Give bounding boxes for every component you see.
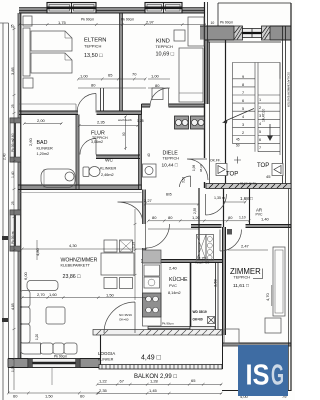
svg-text:1,20m2: 1,20m2 — [37, 152, 50, 156]
svg-text:1,75: 1,75 — [58, 20, 67, 25]
kind wardrobe — [188, 17, 204, 46]
svg-text:KLEBEPARKETT: KLEBEPARKETT — [61, 264, 91, 268]
zimmer bottom fill — [222, 343, 291, 345]
svg-text:45: 45 — [266, 174, 271, 179]
bad/wc separation — [75, 115, 77, 190]
wohnzimmer south window — [28, 359, 80, 386]
svg-text:80: 80 — [168, 215, 173, 220]
stair upper landing — [233, 63, 281, 79]
north wall band — [19, 7, 204, 9]
corridor wall fill — [205, 26, 210, 104]
svg-text:TOP: TOP — [226, 172, 238, 178]
west wall — [20, 13, 22, 358]
zimmer west wall — [222, 227, 224, 369]
kueche stove dark — [143, 293, 162, 317]
svg-text:6: 6 — [259, 138, 261, 142]
page border line left outer — [2, 23, 4, 400]
diele top wall — [142, 103, 205, 105]
svg-text:Pk 90cm: Pk 90cm — [220, 21, 233, 25]
svg-text:4,70: 4,70 — [265, 292, 270, 301]
svg-text:KLINKER: KLINKER — [37, 147, 54, 151]
svg-text:WC: WC — [105, 158, 114, 164]
svg-text:4,80: 4,80 — [35, 247, 40, 256]
svg-text:65: 65 — [191, 378, 196, 383]
top-right step — [218, 2, 291, 4]
svg-text:BAD: BAD — [37, 140, 48, 146]
kind pillow — [174, 30, 185, 41]
kueche fridge — [144, 265, 160, 276]
wohnzimmer/diele wall — [142, 190, 144, 263]
edge mark 2 — [2, 318, 8, 322]
svg-text:1,60: 1,60 — [49, 292, 58, 297]
door arc diele entrance — [187, 159, 208, 180]
svg-text:4,85: 4,85 — [11, 303, 15, 310]
kind north window — [145, 3, 182, 14]
eltern bed headboard — [23, 28, 30, 76]
diele right wall — [204, 104, 206, 188]
rotated dims — [3, 24, 271, 372]
sofa corner — [21, 343, 41, 354]
ne band fill — [200, 26, 234, 39]
stair step numbers left — [242, 75, 244, 135]
eltern mattress 1 — [31, 31, 72, 51]
balkon dim line 1 — [97, 383, 222, 385]
door jamb mark — [227, 229, 232, 235]
flur dims lines — [78, 78, 146, 80]
svg-text:3,06m2: 3,06m2 — [91, 140, 103, 144]
flur vertical dim — [125, 116, 127, 150]
svg-text:35: 35 — [11, 24, 15, 28]
south wall fill — [8, 359, 28, 367]
svg-text:1,50: 1,50 — [106, 293, 115, 298]
svg-text:6: 6 — [242, 99, 244, 103]
svg-text:WD 35/19: WD 35/19 — [193, 310, 207, 314]
sofa chaise top — [27, 281, 58, 291]
svg-text:1,35 m: 1,35 m — [214, 196, 225, 200]
bad bathtub — [41, 169, 75, 188]
svg-text:TEPPICH: TEPPICH — [163, 157, 180, 161]
door arc loggia — [104, 302, 135, 333]
right flight steps — [258, 95, 280, 152]
svg-text:1,68 □: 1,68 □ — [240, 196, 253, 201]
svg-text:2,60: 2,60 — [11, 133, 15, 140]
svg-text:Vorgel.=DS: Vorgel.=DS — [195, 261, 209, 265]
svg-text:TEPPICH: TEPPICH — [156, 44, 173, 49]
stair walk line — [224, 109, 254, 122]
wohnzimmer diele wall fill — [143, 190, 145, 225]
flur/diele wall — [138, 115, 140, 191]
diele stove unit — [175, 116, 205, 129]
down arrow right flight — [269, 124, 271, 136]
dining chairs top — [104, 240, 117, 252]
svg-text:1,10: 1,10 — [239, 216, 246, 220]
svg-text:40: 40 — [147, 153, 151, 157]
svg-text:1,99: 1,99 — [11, 366, 15, 372]
door arc wohnzimmer/diele lower — [146, 224, 170, 248]
svg-text:2,97: 2,97 — [146, 20, 155, 25]
svg-text:2: 2 — [242, 131, 244, 135]
svg-text:LOGGIA: LOGGIA — [98, 351, 115, 356]
zimmer top fill — [191, 225, 222, 227]
bottom right baseline — [222, 390, 291, 392]
eltern nightstand top — [23, 16, 32, 26]
svg-text:11,61 □: 11,61 □ — [233, 283, 249, 289]
sofa seats vertical — [21, 291, 31, 308]
svg-text:Pk 90cm: Pk 90cm — [11, 139, 15, 152]
landing door symbol right — [272, 164, 283, 176]
svg-text:2,70: 2,70 — [37, 292, 46, 297]
svg-text:Pk 90cm: Pk 90cm — [54, 355, 67, 359]
wall fill bands — [8, 8, 291, 367]
wohnzimmer top fill — [18, 185, 142, 189]
balcony railing band — [99, 365, 222, 370]
sanitary band fill — [19, 111, 78, 114]
svg-text:1,25: 1,25 — [137, 119, 144, 123]
balkon dim line 2 — [97, 392, 222, 394]
flur diele wall fill — [139, 115, 141, 191]
wohnzimmer south wall — [8, 358, 100, 360]
svg-text:3: 3 — [242, 123, 244, 127]
svg-text:1,40: 1,40 — [261, 217, 270, 222]
dining table — [101, 253, 134, 275]
border tick top — [0, 22, 9, 24]
svg-text:10,44 □: 10,44 □ — [162, 163, 178, 169]
left flight rail — [232, 79, 234, 144]
svg-text:4: 4 — [242, 115, 244, 119]
svg-text:KLINKER: KLINKER — [100, 167, 117, 171]
stair step numbers right — [259, 98, 261, 150]
edge mark 1 — [2, 236, 8, 240]
wc toilet — [83, 167, 89, 177]
svg-text:2,35: 2,35 — [193, 208, 197, 214]
north-east recessed wall band — [200, 25, 291, 27]
wc top wall — [96, 154, 140, 156]
svg-text:NO 35/19: NO 35/19 — [119, 313, 132, 317]
svg-text:OK=60: OK=60 — [119, 318, 129, 322]
svg-text:2,47: 2,47 — [241, 244, 250, 249]
svg-text:1,93: 1,93 — [132, 242, 136, 248]
eltern mattress 2 — [31, 53, 72, 73]
kueche upper cabinet — [143, 250, 162, 263]
svg-text:3,58: 3,58 — [213, 278, 218, 287]
kueche top wall — [142, 259, 223, 261]
svg-text:OK=60: OK=60 — [193, 318, 203, 322]
stair flight divider — [254, 63, 256, 152]
pantry east wall — [215, 263, 217, 332]
svg-text:Pk 90cm: Pk 90cm — [121, 18, 134, 22]
kueche counter — [143, 263, 162, 326]
right flight rail — [279, 63, 281, 156]
svg-text:2,46m2: 2,46m2 — [101, 173, 114, 177]
zimmer top dim — [228, 249, 268, 251]
kind desk — [152, 88, 163, 100]
svg-text:TEPPICH: TEPPICH — [84, 44, 101, 49]
vestibule wardrobe — [197, 235, 207, 261]
door arc zimmer entry — [220, 230, 242, 252]
svg-text:25: 25 — [11, 201, 15, 205]
svg-text:4,49 □: 4,49 □ — [141, 355, 162, 362]
door arc wohnzimmer upper — [118, 202, 143, 222]
svg-text:65: 65 — [108, 73, 113, 78]
kueche top fill — [142, 260, 223, 262]
page border line left inner — [8, 23, 10, 393]
svg-text:16,47,00: 16,47,00 — [262, 109, 266, 122]
svg-text:3,85: 3,85 — [10, 66, 15, 75]
stair top landing line — [208, 41, 282, 43]
landing level mark — [234, 157, 241, 164]
svg-text:Pk 90cm: Pk 90cm — [11, 231, 15, 244]
svg-text:B05: B05 — [166, 193, 172, 197]
east wall lower — [290, 3, 292, 391]
zimmer vertical dim — [271, 285, 273, 306]
left vertical dim line — [13, 26, 15, 390]
sanitary top wall thick band left — [19, 110, 142, 112]
svg-text:10: 10 — [211, 21, 215, 25]
svg-text:3,53: 3,53 — [182, 177, 186, 183]
svg-text:45: 45 — [236, 138, 240, 142]
svg-text:95,20 46,70: 95,20 46,70 — [240, 181, 256, 185]
svg-text:5: 5 — [242, 107, 244, 111]
eltern nightstand bottom — [23, 78, 33, 88]
loggia west wall — [100, 335, 102, 369]
svg-text:67: 67 — [120, 379, 125, 384]
svg-text:80: 80 — [228, 215, 233, 220]
wc top fill — [96, 155, 140, 158]
svg-text:SCHLAFZIMMERFENSTER: SCHLAFZIMMERFENSTER — [287, 72, 291, 107]
door arc eltern — [77, 94, 96, 113]
zimmer bottom wall — [222, 342, 291, 344]
middle dims above zimmer wall — [148, 220, 250, 222]
door arc apartment entry — [206, 194, 227, 215]
svg-text:1,20: 1,20 — [35, 334, 39, 340]
wohnzimmer west window — [10, 210, 21, 251]
kueche right wall fill — [190, 263, 192, 332]
wohnzimmer lower dims — [22, 297, 146, 299]
landing door symbol left — [216, 164, 227, 176]
svg-text:1,28: 1,28 — [150, 379, 159, 384]
svg-text:4,30: 4,30 — [69, 243, 78, 248]
svg-text:1,98: 1,98 — [192, 165, 196, 171]
washing machine — [143, 164, 157, 177]
vestibule west wall — [198, 188, 200, 260]
svg-text:80: 80 — [91, 83, 96, 88]
walk line arrow — [222, 120, 228, 124]
bad west window — [10, 118, 21, 162]
svg-text:25: 25 — [11, 104, 15, 108]
svg-text:2,27: 2,27 — [144, 198, 153, 203]
svg-text:wsch/wc/b: wsch/wc/b — [118, 118, 132, 122]
zimmer wardrobe — [273, 247, 285, 316]
svg-text:2,40: 2,40 — [169, 266, 178, 271]
svg-text:13,50 □: 13,50 □ — [84, 53, 103, 59]
svg-text:50: 50 — [236, 144, 240, 148]
zimmer door jamb bracket — [253, 269, 263, 279]
coffee table — [46, 307, 65, 324]
zimmer bed — [224, 329, 239, 343]
kind dim lines — [148, 78, 170, 80]
svg-text:G: G — [271, 360, 284, 392]
svg-text:6,00: 6,00 — [23, 271, 28, 280]
svg-text:60: 60 — [80, 394, 85, 399]
svg-text:1,50: 1,50 — [45, 394, 54, 399]
door arc diele small — [180, 176, 191, 187]
landing west wall — [223, 188, 225, 227]
svg-text:Pk 90cm: Pk 90cm — [81, 18, 94, 22]
eltern inner wall line — [19, 103, 76, 105]
kueche south window band — [148, 327, 215, 333]
north wall fill — [19, 8, 47, 13]
svg-text:1,20: 1,20 — [192, 215, 201, 220]
svg-text:1,40: 1,40 — [11, 171, 15, 178]
eltern/kind separation wall — [119, 13, 121, 111]
ar dim — [224, 201, 246, 203]
svg-text:90: 90 — [122, 132, 126, 136]
svg-text:2,60: 2,60 — [28, 137, 33, 146]
zimmer sideboard — [265, 318, 281, 333]
bottom left dim line — [8, 392, 100, 394]
zimmer west wall fill — [223, 227, 225, 335]
vertical dim west — [36, 240, 38, 260]
svg-text:1: 1 — [259, 98, 261, 102]
svg-text:10,69 □: 10,69 □ — [156, 52, 175, 58]
shaft box with X — [208, 317, 215, 324]
vestibule coat hooks — [206, 235, 214, 261]
stairwell north window — [234, 26, 270, 40]
svg-text:80: 80 — [152, 215, 157, 220]
svg-text:80: 80 — [155, 83, 160, 88]
svg-text:5: 5 — [259, 130, 261, 134]
svg-text:98,20: 98,20 — [199, 164, 203, 172]
svg-text:60: 60 — [13, 394, 18, 399]
svg-text:8,14m2: 8,14m2 — [168, 291, 181, 295]
AR left wall — [249, 188, 251, 225]
vertical dim at diele wall — [134, 209, 136, 300]
svg-text:1,22: 1,22 — [99, 379, 108, 384]
svg-text:2,40: 2,40 — [3, 153, 7, 160]
zimmer top wall — [191, 224, 291, 226]
flur 2,35 dim — [79, 125, 138, 127]
svg-text:TEPPICH: TEPPICH — [234, 276, 251, 280]
west wall fill — [18, 13, 20, 118]
kind bed — [179, 48, 203, 102]
stairwell left wall — [225, 40, 227, 188]
svg-text:1,00: 1,00 — [151, 74, 160, 79]
svg-text:70: 70 — [132, 72, 137, 77]
svg-text:KÜCHE: KÜCHE — [169, 276, 188, 283]
wohnzimmer top wall — [18, 184, 142, 186]
svg-text:1,00: 1,00 — [80, 74, 89, 79]
eltern north window — [47, 3, 96, 14]
svg-text:2,35: 2,35 — [99, 388, 108, 393]
svg-text:Pk 90cm: Pk 90cm — [162, 322, 174, 326]
east wall stairwell — [282, 26, 284, 188]
wohnzimmer 4,30 dim — [22, 248, 146, 250]
landing separation dark band — [206, 184, 291, 189]
svg-text:7: 7 — [259, 146, 261, 150]
svg-text:1,45: 1,45 — [149, 388, 158, 393]
bad wc wall fill — [76, 115, 78, 190]
svg-text:IS: IS — [246, 360, 270, 392]
svg-text:TOP: TOP — [257, 163, 269, 169]
dining chairs bottom — [104, 278, 117, 289]
eltern kind wall fill — [120, 13, 122, 111]
diele top fill — [142, 104, 151, 106]
svg-text:PVC: PVC — [169, 284, 177, 288]
door arc kind — [150, 88, 169, 107]
svg-text:2,00: 2,00 — [37, 118, 46, 123]
svg-text:KLINKER: KLINKER — [98, 358, 114, 362]
kueche right wall — [190, 263, 192, 332]
kind/corridor wall — [204, 2, 206, 104]
svg-text:8: 8 — [242, 83, 244, 87]
svg-text:OK.FF.: OK.FF. — [210, 159, 221, 163]
eltern closet stub — [100, 88, 102, 111]
svg-text:23,86 □: 23,86 □ — [63, 274, 82, 280]
logo ISG — [238, 345, 288, 396]
top dim line — [19, 24, 206, 26]
left flight steps — [233, 79, 256, 144]
loggia separation hatched wall — [93, 330, 222, 336]
svg-text:9: 9 — [242, 75, 244, 79]
bad top dim — [24, 123, 62, 125]
door arc wc — [80, 139, 96, 155]
svg-text:2,35: 2,35 — [97, 120, 106, 125]
svg-text:7: 7 — [242, 91, 244, 95]
sofa horizontal seats — [41, 343, 54, 354]
